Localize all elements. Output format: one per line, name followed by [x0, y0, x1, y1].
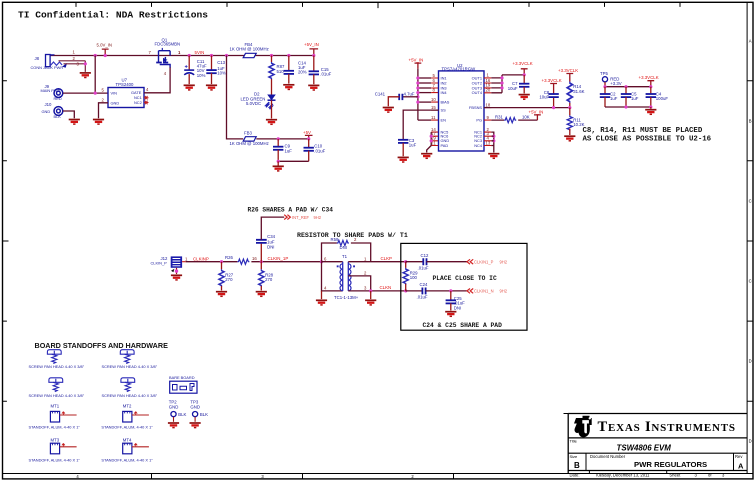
svg-text:FDC365MBN: FDC365MBN	[155, 42, 181, 47]
pin numbers U2 right	[486, 73, 491, 146]
frame inner bottom line	[3, 473, 754, 475]
connector J8 CONN JACK PWR	[31, 55, 67, 71]
svg-text:BOARD STANDOFFS AND HARDWARE: BOARD STANDOFFS AND HARDWARE	[35, 341, 169, 350]
power symbol 5.0V_IN	[97, 43, 113, 58]
ground under U2 left NC	[421, 154, 432, 159]
svg-text:MT2: MT2	[123, 404, 132, 409]
junction bus dots	[416, 76, 419, 79]
svg-text:+3.3V: +3.3V	[610, 81, 621, 86]
screw H1	[47, 350, 61, 364]
wire J8 pins 2,3 to ground	[59, 61, 86, 72]
capacitor C4	[646, 87, 669, 107]
ground under J12	[171, 275, 182, 280]
svg-text:16: 16	[252, 256, 257, 261]
svg-text:1: 1	[178, 50, 181, 55]
svg-text:STANDOFF, ALUM, 4-40 X 1": STANDOFF, ALUM, 4-40 X 1"	[101, 458, 153, 463]
ground under C15	[308, 85, 319, 90]
svg-text:R59: R59	[331, 237, 339, 242]
power symbol +3.3VCLK (C8)	[542, 78, 562, 94]
wire PG row	[491, 119, 537, 121]
svg-text:9H2: 9H2	[500, 260, 508, 265]
frame right zone letters	[749, 39, 752, 444]
svg-text:Tuesday, December 13, 2011: Tuesday, December 13, 2011	[595, 473, 650, 478]
svg-text:CLKINP: CLKINP	[193, 256, 209, 261]
svg-text:C34: C34	[267, 234, 275, 239]
svg-text:TC1-1-13M+: TC1-1-13M+	[334, 295, 359, 300]
row line under logo	[568, 437, 747, 439]
svg-text:TPS7A4701RGW: TPS7A4701RGW	[442, 67, 477, 72]
ground under C11	[184, 85, 195, 90]
SECTION-TITLEBLOCK	[564, 414, 748, 478]
wire drop to FB3 rail	[227, 56, 244, 139]
wire J9 to U7 VIN	[63, 92, 108, 94]
svg-text:SS: SS	[441, 108, 447, 113]
svg-text:13: 13	[486, 140, 491, 145]
svg-text:18: 18	[486, 102, 491, 107]
frame inner right line	[746, 2, 748, 473]
wire J10 to ground	[63, 111, 74, 118]
capacitor C8	[539, 90, 558, 109]
svg-text:C: C	[749, 199, 752, 204]
svg-text:R26 SHARES A PAD W/ C34: R26 SHARES A PAD W/ C34	[248, 206, 334, 213]
svg-text:10%: 10%	[217, 70, 226, 75]
svg-text:C8, R14, R11 MUST BE PLACED: C8, R14, R11 MUST BE PLACED	[583, 127, 703, 135]
svg-text:.01uF: .01uF	[418, 265, 429, 270]
svg-text:GND: GND	[190, 404, 200, 409]
ground under TP3	[190, 423, 201, 428]
svg-text:31.6K: 31.6K	[573, 89, 584, 94]
junction C9	[277, 137, 280, 140]
no-connect X on NC2	[144, 101, 149, 105]
svg-text:10%: 10%	[197, 73, 206, 78]
svg-text:DNI: DNI	[340, 245, 347, 250]
svg-text:STANDOFF, ALUM, 4-40 X 1": STANDOFF, ALUM, 4-40 X 1"	[29, 458, 81, 463]
dashed box	[401, 243, 527, 330]
svg-text:BARE BOARD: BARE BOARD	[169, 375, 195, 380]
svg-text:1K OHM @ 100MHz: 1K OHM @ 100MHz	[230, 47, 269, 52]
svg-text:CLKIN1_P: CLKIN1_P	[474, 259, 494, 264]
svg-text:+5V_IN: +5V_IN	[409, 58, 424, 63]
svg-text:CLKN: CLKN	[380, 285, 392, 290]
junction FB3 drop	[225, 54, 228, 57]
svg-text:TEXAS INSTRUMENTS: TEXAS INSTRUMENTS	[598, 419, 736, 435]
wire OUT bus to C7 node	[502, 74, 524, 76]
svg-text:1: 1	[185, 256, 188, 261]
svg-text:BIAS: BIAS	[441, 100, 450, 105]
row line under title	[568, 452, 747, 454]
TI logo	[574, 416, 592, 438]
standoff MT2	[101, 404, 153, 430]
svg-text:10uF: 10uF	[508, 86, 518, 91]
SECTION-XFMR	[151, 206, 528, 330]
transformer T1 TC1-1-13M+	[322, 254, 359, 300]
svg-text:+3.3VCLK: +3.3VCLK	[513, 61, 533, 66]
test point TP2	[169, 400, 187, 422]
title block outline	[568, 414, 747, 474]
svg-text:A: A	[738, 462, 744, 471]
svg-text:+5V_IN: +5V_IN	[304, 42, 319, 47]
wire IN1	[418, 77, 431, 79]
power symbol +3.3VCLK (R14)	[558, 68, 578, 82]
svg-text:1uF: 1uF	[285, 149, 293, 154]
wire J12 to R26	[186, 261, 238, 263]
wire T1 pin1	[348, 261, 405, 263]
wire IN4	[418, 92, 431, 94]
connector J10 GND	[42, 102, 63, 119]
test point TP3	[190, 400, 208, 422]
svg-text:CLKIN_1P: CLKIN_1P	[268, 256, 289, 261]
wire T1 pin2 center tap	[348, 276, 370, 291]
wire OUT bus	[491, 75, 502, 93]
capacitor C11 polarized	[184, 56, 207, 85]
capacitor C25 DNI	[446, 291, 466, 311]
svg-text:CLKP: CLKP	[381, 256, 393, 261]
svg-text:C: C	[749, 279, 752, 284]
wire clk cap rail top	[605, 86, 651, 88]
svg-text:PLACE CLOSE TO IC: PLACE CLOSE TO IC	[433, 275, 497, 282]
pin stub J12	[182, 261, 186, 263]
capacitor C2	[600, 87, 618, 107]
junction C25	[449, 289, 452, 292]
col line date	[588, 471, 590, 474]
svg-text:VIN: VIN	[111, 90, 118, 95]
svg-text:510: 510	[277, 69, 285, 74]
wire J8 pin1	[54, 54, 56, 57]
svg-text:AS CLOSE AS POSSIBLE TO U2-16: AS CLOSE AS POSSIBLE TO U2-16	[583, 136, 712, 144]
svg-text:+5V_IN: +5V_IN	[529, 109, 544, 114]
wire IN2	[418, 82, 431, 84]
capacitor C141	[375, 92, 418, 107]
svg-text:9H2: 9H2	[500, 289, 508, 294]
svg-text:270: 270	[265, 277, 273, 282]
svg-text:.01uF: .01uF	[314, 149, 325, 154]
svg-text:J10: J10	[45, 102, 53, 107]
svg-text:5: 5	[102, 88, 105, 93]
svg-text:PWR REGULATORS: PWR REGULATORS	[634, 460, 707, 469]
junction main rail to U7	[94, 54, 97, 57]
off-page connector CLKIN1_N	[467, 289, 508, 294]
col line rev	[733, 453, 735, 470]
wire NC5-PAD bus to ground	[427, 132, 432, 152]
power symbol +5V_IN (U2)	[409, 58, 424, 69]
screw H3	[49, 378, 63, 392]
svg-text:5.0VDC: 5.0VDC	[246, 101, 261, 106]
svg-text:11: 11	[431, 115, 436, 120]
capacitor C13	[206, 56, 226, 85]
wire +5V_IN bus	[417, 69, 419, 120]
svg-text:+3.3VCLK: +3.3VCLK	[558, 68, 578, 73]
wire EN row	[418, 119, 431, 121]
connector J12 CLKIN_P	[151, 256, 183, 274]
svg-text:100: 100	[410, 275, 418, 280]
svg-text:9: 9	[487, 115, 490, 120]
wire U7 GATE to Q1 gate	[144, 67, 170, 93]
ground under R11	[564, 136, 575, 141]
capacitor C24	[406, 282, 467, 299]
junction C9 bottom	[277, 160, 280, 163]
svg-text:J8: J8	[35, 56, 40, 61]
ground under J10	[69, 120, 80, 125]
svg-text:15: 15	[431, 105, 436, 110]
svg-text:PAD: PAD	[441, 143, 449, 148]
svg-text:INT_REF: INT_REF	[292, 215, 310, 220]
svg-text:IN4: IN4	[441, 90, 448, 95]
ferrite bead FB4	[230, 42, 269, 58]
screw H2	[120, 350, 134, 364]
svg-text:20: 20	[486, 88, 491, 93]
frame bottom ticks	[152, 474, 454, 479]
ground under C25	[445, 312, 456, 317]
svg-text:C10: C10	[314, 143, 322, 148]
svg-text:D: D	[749, 439, 752, 444]
ground under C14	[283, 85, 294, 90]
junction R87	[270, 54, 273, 57]
svg-text:FB3: FB3	[244, 130, 252, 135]
svg-text:C24: C24	[420, 282, 428, 287]
resistor R11	[567, 108, 584, 135]
svg-text:RESISTOR TO SHARE PADS W/ T1: RESISTOR TO SHARE PADS W/ T1	[297, 232, 408, 239]
ferrite bead FB3	[230, 130, 269, 146]
svg-text:RED: RED	[54, 96, 62, 101]
capacitor C7	[508, 75, 530, 94]
SECTION-TOPLEFT	[31, 38, 332, 171]
svg-text:Title: Title	[570, 438, 578, 443]
svg-text:TSW4806 EVM: TSW4806 EVM	[617, 444, 672, 453]
capacitor C14	[284, 56, 307, 84]
svg-text:C12: C12	[421, 253, 429, 258]
svg-text:5.0V_IN: 5.0V_IN	[97, 43, 113, 48]
wire SS row to C3	[403, 110, 438, 139]
svg-text:MT3: MT3	[51, 438, 60, 443]
svg-text:OUT4: OUT4	[472, 90, 483, 95]
svg-text:CLKIN_P: CLKIN_P	[151, 261, 168, 266]
junction C11	[188, 54, 191, 57]
svg-text:100uF: 100uF	[656, 96, 669, 101]
resistor R59 DNI bypass	[322, 237, 371, 262]
svg-text:TP5: TP5	[600, 71, 608, 76]
svg-text:GND: GND	[42, 109, 51, 114]
power symbol +3.3VCLK (rail)	[639, 75, 659, 88]
ground under C7	[519, 95, 530, 100]
power symbol +5V	[303, 130, 313, 141]
resistor R29	[403, 262, 418, 291]
resistor R31	[495, 115, 530, 123]
capacitor C10	[304, 139, 326, 161]
ground under J8	[80, 73, 91, 78]
bare board	[169, 375, 197, 393]
svg-text:5VIN: 5VIN	[195, 50, 205, 55]
resistor R87	[269, 56, 285, 95]
power symbol +5V_IN	[304, 42, 319, 57]
svg-text:1: 1	[364, 256, 367, 261]
wire IN3	[418, 87, 431, 89]
ground under D2	[266, 120, 277, 125]
svg-text:A: A	[749, 39, 752, 44]
svg-text:DNI: DNI	[454, 305, 461, 310]
svg-text:.01uF: .01uF	[417, 295, 428, 300]
standoff MT3	[29, 438, 81, 463]
pin numbers U2 left	[431, 73, 436, 146]
svg-text:MT4: MT4	[123, 438, 132, 443]
svg-text:+5V: +5V	[303, 130, 311, 135]
no-connect X on NC1	[144, 96, 149, 100]
wire clk cap rail bottom	[605, 106, 651, 108]
junction C13	[210, 54, 213, 57]
svg-text:1uF: 1uF	[631, 96, 639, 101]
svg-text:TPS2400: TPS2400	[116, 82, 135, 87]
ground under C9	[273, 166, 284, 171]
junction R27	[220, 260, 223, 263]
svg-text:R31: R31	[495, 115, 503, 120]
connector J9 MAIN PWR	[41, 84, 63, 101]
wire joining C9 C10 bottoms	[278, 160, 309, 162]
op-amp U7 TPS2400	[108, 77, 144, 107]
ground under T1 left	[321, 291, 323, 299]
ground under C13	[206, 85, 217, 90]
capacitor C3	[398, 138, 417, 156]
ground under C3	[398, 157, 409, 162]
off-page connector INT_REF	[284, 215, 322, 220]
junction C2 top	[603, 85, 606, 88]
svg-text:1uF: 1uF	[409, 143, 417, 148]
col line sheet	[666, 471, 668, 474]
frame right ticks	[747, 81, 753, 402]
capacitor C15	[309, 56, 332, 85]
svg-text:Rev: Rev	[735, 454, 743, 459]
junction CLKP/R29	[404, 260, 407, 263]
svg-text:TI Confidential: NDA Restricti: TI Confidential: NDA Restrictions	[18, 10, 208, 21]
ground under R28	[256, 292, 267, 297]
wire R26 to T1	[251, 261, 321, 263]
wire FB3 to +5V	[256, 138, 307, 140]
junction C14	[287, 54, 290, 57]
col line size	[585, 453, 587, 470]
test point TP5	[600, 71, 622, 87]
svg-text:SCREW PAN HEAD 4-40 X 3/8": SCREW PAN HEAD 4-40 X 3/8"	[29, 364, 85, 369]
wire T1 pin3	[348, 290, 405, 292]
screw H4	[121, 378, 135, 392]
svg-text:1uF: 1uF	[610, 96, 618, 101]
svg-text:CONN JACK PWR: CONN JACK PWR	[31, 65, 64, 70]
svg-text:+3.3VCLK: +3.3VCLK	[542, 78, 562, 83]
ground under TP2	[168, 423, 179, 428]
svg-text:2: 2	[102, 98, 105, 103]
svg-text:BLK: BLK	[178, 412, 186, 417]
svg-text:BLK: BLK	[54, 114, 62, 119]
svg-text:1: 1	[73, 50, 76, 55]
ground under C141	[383, 108, 394, 113]
junction VIN	[94, 92, 97, 95]
svg-text:SCREW PAN HEAD 4-40 X 3/8": SCREW PAN HEAD 4-40 X 3/8"	[102, 364, 158, 369]
svg-text:C13: C13	[217, 60, 225, 65]
power symbol +3.3VCLK (C7)	[513, 61, 533, 77]
svg-text:SCREW PAN HEAD 4-40 X 3/8": SCREW PAN HEAD 4-40 X 3/8"	[102, 393, 158, 398]
svg-text:C141: C141	[375, 92, 386, 97]
resistor R27	[219, 262, 234, 291]
capacitor C5	[621, 87, 639, 107]
svg-text:NC4: NC4	[474, 143, 483, 148]
standoff MT1	[29, 404, 81, 430]
ground under T1 right	[370, 291, 372, 299]
svg-text:GND: GND	[169, 404, 179, 409]
svg-text:4: 4	[164, 71, 167, 76]
wire main 5V rail	[51, 55, 314, 57]
svg-text:270: 270	[225, 277, 233, 282]
capacitor C12	[406, 253, 467, 270]
svg-text:NC2: NC2	[134, 100, 142, 105]
transistor Q1 FDC365MBN	[156, 48, 170, 68]
svg-text:R26: R26	[225, 255, 233, 260]
svg-text:CLKIN1_N: CLKIN1_N	[474, 289, 494, 294]
capacitor C9	[273, 139, 292, 161]
power symbol +5V_IN (PG)	[529, 109, 544, 120]
svg-text:D: D	[749, 359, 752, 364]
svg-text:Date:: Date:	[570, 473, 580, 478]
svg-text:STANDOFF, ALUM, 4-40 X 1": STANDOFF, ALUM, 4-40 X 1"	[29, 424, 81, 429]
svg-text:PG: PG	[476, 118, 482, 123]
frame bottom zone numbers	[76, 474, 414, 479]
svg-text:10K: 10K	[522, 115, 530, 120]
diode D2 LED GREEN	[241, 92, 276, 119]
svg-text:DNI: DNI	[267, 244, 274, 249]
svg-text:4.7uF: 4.7uF	[404, 92, 415, 97]
svg-text:4: 4	[324, 286, 327, 291]
resistor R26	[225, 255, 257, 265]
wire NC1-NC4 bus to ground	[491, 132, 494, 152]
ground under U2 right NC	[488, 154, 499, 159]
svg-text:MT1: MT1	[51, 404, 60, 409]
resistor R28	[259, 262, 274, 291]
ground under C4	[650, 107, 652, 109]
svg-text:SCREW PAN HEAD 4-40 X 3/8": SCREW PAN HEAD 4-40 X 3/8"	[29, 393, 85, 398]
svg-text:C9: C9	[285, 143, 291, 148]
svg-text:2: 2	[364, 271, 367, 276]
pin stubs U2 left	[431, 78, 438, 146]
svg-text:1K OHM @ 100MHz: 1K OHM @ 100MHz	[230, 141, 269, 146]
svg-text:Document Number: Document Number	[590, 454, 626, 459]
svg-text:B: B	[749, 119, 752, 124]
row line under doc	[568, 470, 747, 472]
junction J8 gnd	[84, 62, 87, 65]
svg-text:C24 & C25 SHARE A PAD: C24 & C25 SHARE A PAD	[423, 322, 503, 329]
svg-text:B: B	[574, 461, 580, 470]
junction T1 left	[320, 260, 323, 263]
svg-text:+3.3VCLK: +3.3VCLK	[639, 75, 659, 80]
svg-text:MAIN PWR: MAIN PWR	[41, 88, 61, 93]
standoff MT4	[101, 438, 153, 463]
junction CLKN/R29	[404, 289, 407, 292]
SECTION-U2	[375, 58, 712, 163]
off-page connector CLKIN1_P	[467, 259, 508, 264]
svg-text:BLK: BLK	[200, 412, 208, 417]
wire BIAS row	[418, 101, 431, 103]
svg-text:GND: GND	[111, 100, 120, 105]
wire FBSNS	[484, 107, 570, 109]
ground under U7	[93, 120, 104, 125]
wire vertical to VIN row	[94, 56, 96, 94]
pin stubs U2 right	[484, 78, 491, 146]
capacitor C34	[256, 217, 284, 262]
resistor R14	[567, 82, 584, 110]
svg-text:20%: 20%	[298, 70, 307, 75]
svg-text:7: 7	[149, 50, 152, 55]
svg-text:Sheet: Sheet	[669, 473, 681, 478]
svg-text:.01uF: .01uF	[320, 72, 331, 77]
svg-text:6: 6	[324, 256, 327, 261]
frame left ticks	[3, 81, 9, 402]
junction C5 top	[624, 85, 627, 88]
svg-text:10: 10	[431, 97, 436, 102]
